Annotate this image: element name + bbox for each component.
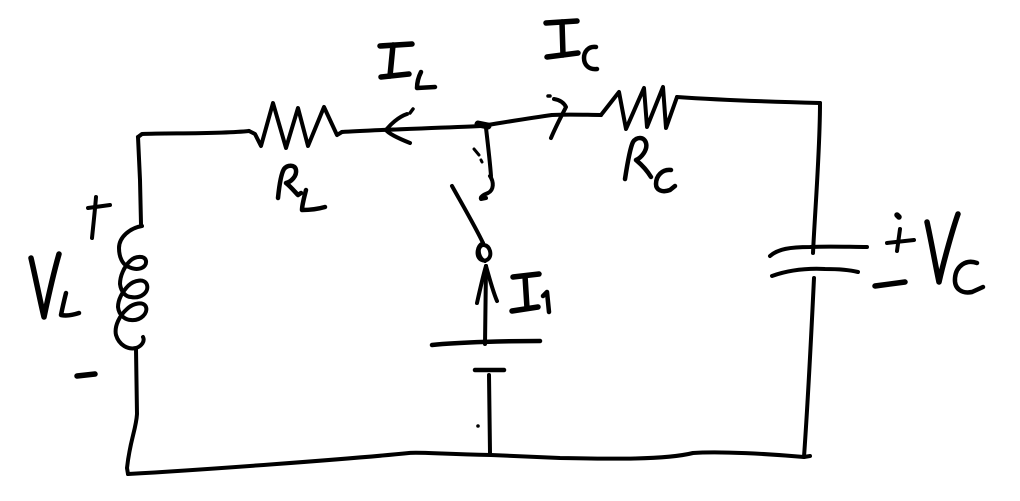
switch fixed contact hook [481, 176, 493, 199]
wire R_C to top-right corner [677, 97, 820, 103]
small tick near node B [474, 149, 482, 162]
plus sign (V_C polarity) [887, 215, 914, 251]
wire bottom (left section) [128, 453, 491, 474]
stray dot bottom-center [476, 424, 480, 428]
wire R_L to node B [342, 126, 481, 132]
junction blob node B [478, 124, 488, 126]
switch blade (open) [452, 186, 483, 243]
arrow I_1 (shaft, points up) [477, 266, 497, 344]
label I_1 [512, 274, 549, 312]
wire bottom (right section) [491, 452, 810, 458]
battery positive plate (long) [432, 341, 540, 345]
resistor R_L [249, 103, 342, 148]
minus sign (V_C polarity) [875, 282, 905, 286]
arrowhead I_C (points right) [548, 96, 566, 138]
switch pivot contact (small loop) [478, 243, 491, 261]
wire left vertical bottom [127, 349, 137, 474]
label I_L [380, 44, 435, 88]
capacitor C (top plate) [770, 247, 867, 256]
node B (junction) wire to right [481, 115, 552, 126]
wire battery to bottom [489, 375, 490, 453]
wire left vertical top [138, 137, 141, 224]
wire right vertical (to capacitor) [813, 103, 820, 253]
inductor L (coil) [116, 226, 148, 348]
label R_L [278, 166, 325, 210]
label V_L [31, 254, 79, 317]
wire node B down to switch [486, 128, 491, 176]
capacitor C (bottom plate) [772, 269, 858, 276]
wire arrow to R_C [552, 113, 601, 117]
wire capacitor to bottom-right corner [804, 278, 814, 457]
plus sign (V_L polarity) [88, 197, 110, 238]
label R_C [625, 138, 675, 191]
battery negative plate (short) [475, 368, 504, 373]
label I_C [546, 21, 597, 69]
arrowhead I_L (points left) [386, 109, 413, 143]
resistor R_C [601, 87, 677, 129]
wire top-left (node A to R_L) [138, 131, 249, 137]
label V_C [927, 214, 983, 292]
minus sign (V_L polarity) [77, 374, 95, 376]
